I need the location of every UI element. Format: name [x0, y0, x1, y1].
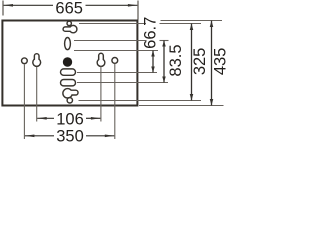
oval slot center	[65, 38, 71, 50]
dimension 325 vertical line	[191, 24, 193, 101]
svg-text:350: 350	[56, 128, 84, 145]
dimension 350 line	[25, 135, 54, 137]
extension line: oval bottom (66.7 top ref)	[74, 50, 158, 52]
keyhole slot top (points left)	[64, 26, 76, 32]
dimension 106 line	[37, 117, 54, 119]
extension line down from left circle (350 left ref)	[23, 65, 25, 140]
svg-text:325: 325	[191, 48, 209, 76]
keyhole slot bottom (points right)	[64, 89, 78, 97]
fixture outline rectangle	[2, 21, 137, 106]
extension line down from right keyhole (106 right ref)	[100, 67, 102, 122]
screw hole circle bottom	[67, 98, 72, 103]
dimension 435 vertical line	[211, 21, 213, 106]
right circle hole	[112, 58, 118, 64]
extension line: stadium2 (83.5 bottom ref)	[77, 82, 168, 84]
extension line down from left keyhole (106 left ref)	[36, 67, 38, 122]
dimension 66.7 vertical line	[152, 51, 154, 73]
stadium slot 1	[61, 69, 76, 75]
svg-text:435: 435	[212, 48, 227, 76]
dimension line 665	[4, 4, 54, 6]
svg-text:83.5: 83.5	[167, 44, 185, 76]
extension line: stadium1 (66.7 bottom ref)	[77, 72, 157, 74]
extension line: oval top (83.5 top ref)	[74, 40, 147, 42]
svg-text:665: 665	[55, 0, 83, 18]
extension line: bottom edge right (435 bottom ref)	[139, 105, 224, 107]
left circle hole	[22, 58, 28, 64]
screw hole circle top	[67, 21, 71, 25]
extension line: top edge to right (435 top ref)	[161, 20, 223, 22]
svg-text:106: 106	[56, 110, 84, 128]
right keyhole (stem up)	[98, 54, 104, 66]
extension line right (665/435)	[137, 1, 139, 20]
extension line left (665)	[2, 1, 4, 16]
arrow right 665	[128, 4, 137, 7]
arrow left 665	[4, 4, 14, 7]
filled mounting hole	[63, 57, 72, 66]
dimension 83.5 vertical line	[163, 41, 165, 83]
extension line: top circle centre (325 top ref)	[79, 23, 146, 25]
left keyhole (stem up)	[34, 54, 40, 65]
extension line: bottom circle centre (325 bottom ref)	[79, 100, 202, 102]
stadium slot 2	[61, 80, 76, 86]
svg-text:66.7: 66.7	[141, 17, 159, 49]
extension line down from right circle (350 right ref)	[114, 64, 116, 139]
